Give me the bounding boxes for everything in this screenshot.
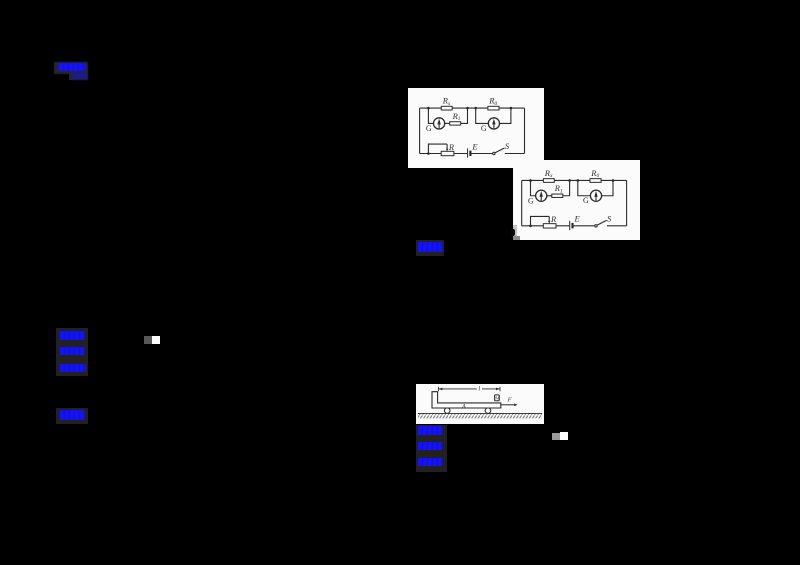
svg-text:Rx: Rx — [442, 96, 451, 107]
cart body (wall + deck + base slab) — [432, 392, 501, 408]
force F arrowhead — [514, 404, 518, 407]
dark backing under navy blob — [69, 72, 73, 81]
wire: bottom rail right segment (fig2) — [607, 225, 627, 227]
junction node: mid-left (fig2) — [568, 179, 571, 182]
navy highlighted text fragment — [72, 72, 88, 81]
wire: G1 to R1 (fig2) — [547, 195, 552, 197]
blue answer row 1 (right) — [418, 426, 443, 435]
blue answer row 3 (left) — [60, 364, 86, 372]
dimension line left half — [439, 388, 477, 390]
wire: top rail (fig2) — [522, 179, 627, 181]
junction node: bottom-left — [427, 152, 430, 155]
galvanometer G1 body (fig2) — [536, 190, 547, 201]
scan artifact: black dot — [511, 229, 516, 236]
svg-text:E: E — [574, 214, 581, 224]
galvanometer G1 needle (fig2) — [540, 196, 542, 200]
middle-right answer panel — [416, 240, 445, 256]
highlight panel top-left (dark backing) — [54, 62, 88, 74]
wire: bottom rail left segment — [420, 153, 468, 155]
wire: R1 up to top rail — [461, 108, 468, 123]
wire: bottom rail right segment (switch to corner) — [505, 153, 525, 155]
left answer panel (dark backing, 3 rows) — [56, 328, 88, 376]
junction node: mid-right (fig2) — [577, 179, 580, 182]
svg-text:F: F — [507, 397, 513, 404]
blue highlighted text line 1 (top-left) — [59, 63, 86, 71]
resistor Rx — [441, 106, 452, 110]
galvanometer G2 needle (fig2) — [595, 196, 597, 200]
left answer row 4 panel — [56, 408, 88, 424]
resistor R0 (fig2) — [590, 179, 601, 183]
resistor Rx (fig2) — [543, 179, 554, 183]
wire: G2 up to top rail — [500, 108, 511, 123]
wire: rheostat slider tap loop (fig2) — [531, 216, 550, 225]
svg-text:S: S — [607, 214, 612, 224]
svg-text:R: R — [550, 214, 557, 224]
dimension line right half — [482, 388, 499, 390]
wire: outer loop left side — [419, 108, 421, 153]
dimension end tick left — [437, 387, 439, 391]
galvanometer G1 needle — [438, 124, 440, 128]
wire: bottom rail left segment (fig2) — [522, 225, 570, 227]
rheostat slider arrow shaft — [446, 144, 448, 149]
resistor R1 (fig2) — [552, 194, 563, 197]
rheostat slider arrowhead (fig2) — [548, 221, 550, 224]
resistor R1 — [450, 122, 461, 125]
galvanometer G2 body (fig2) — [590, 190, 601, 201]
wire: R1 up to top rail (fig2) — [563, 180, 570, 195]
svg-text:G: G — [426, 124, 432, 133]
wire: left G branch (fig2) — [531, 180, 536, 195]
wire: left G branch down and across — [428, 108, 433, 123]
wire: G2 up to top rail (fig2) — [602, 180, 613, 195]
wire: bottom rail mid segment (battery to switch) — [470, 153, 492, 155]
switch S lever (fig2) — [597, 220, 607, 225]
small gray cursor block (right) — [552, 433, 560, 440]
wire: outer loop right side — [524, 108, 526, 153]
small white block (left) — [152, 336, 161, 344]
force F arrow shaft — [501, 404, 515, 406]
svg-text:R0: R0 — [488, 96, 497, 107]
junction node: mid-right pair — [474, 107, 477, 110]
galvanometer G1 body — [434, 118, 445, 129]
svg-text:G: G — [583, 196, 589, 205]
wire: outer loop left side (fig2) — [521, 180, 523, 225]
small white block (right) — [560, 432, 568, 440]
wire: right G branch (fig2) — [578, 180, 591, 195]
rheostat R body — [441, 151, 454, 155]
wire: G1 to R1 — [445, 122, 450, 124]
dimension end tick right — [499, 387, 501, 391]
wire: rheostat slider tap loop — [428, 144, 447, 153]
blue answer row 4 (left) — [60, 410, 86, 420]
svg-text:S: S — [505, 141, 510, 151]
junction node: top-right — [510, 107, 513, 110]
scan artifact: gray block — [513, 236, 520, 240]
wire: outer loop right side (fig2) — [626, 180, 628, 225]
blue answer row 2 (left) — [60, 347, 85, 355]
switch S pivot — [493, 152, 495, 154]
svg-text:R1: R1 — [554, 183, 563, 194]
junction node: top-right (fig2) — [612, 179, 615, 182]
blue answer row 3 (right) — [418, 458, 443, 467]
junction node: bottom-left (fig2) — [529, 225, 532, 228]
svg-text:G: G — [481, 124, 487, 133]
figure box 1: circuit diagram — [408, 88, 544, 168]
rheostat slider arrow shaft (fig2) — [548, 216, 550, 221]
wire: right G branch down and across — [476, 108, 489, 123]
wire: bottom rail mid segment (fig2) — [573, 225, 595, 227]
dimension arrowhead left — [439, 388, 443, 391]
dimension arrowhead right — [496, 388, 500, 391]
svg-text:G: G — [528, 197, 534, 206]
switch S pivot (fig2) — [595, 225, 597, 227]
figure box 2: circuit diagram (answer copy) — [513, 160, 640, 240]
battery E long plate (fig2) — [569, 221, 571, 230]
svg-text:E: E — [471, 141, 478, 151]
battery E long plate — [467, 148, 469, 157]
svg-text:l: l — [478, 386, 480, 393]
blue answer row 1 (left) — [60, 331, 84, 340]
battery E short thick plate (fig2) — [571, 223, 573, 228]
galvanometer G2 needle — [493, 124, 495, 128]
scan artifact: light gray strip at box2 bottom-left — [513, 225, 517, 237]
svg-text:R1: R1 — [452, 111, 461, 122]
blue answer row 2 (right) — [418, 442, 442, 450]
right answer panel (3 rows) — [416, 425, 448, 472]
junction node: top-left (fig2) — [529, 179, 532, 182]
battery E short thick plate — [469, 151, 471, 156]
blue answer row (middle-right) — [418, 242, 444, 252]
svg-text:R0: R0 — [590, 168, 599, 179]
wheel left — [444, 408, 450, 414]
wheel right — [485, 408, 491, 414]
ground surface line — [418, 412, 542, 414]
svg-text:M: M — [495, 396, 499, 401]
rheostat slider arrowhead — [446, 149, 448, 152]
figure box 3: cart diagram — [416, 384, 544, 424]
svg-text:R: R — [448, 142, 455, 152]
rheostat R body (fig2) — [543, 224, 556, 228]
switch S lever — [495, 148, 505, 153]
small gray cursor block (left) — [144, 336, 152, 344]
junction node: top-left — [427, 107, 430, 110]
wire: top rail — [420, 107, 525, 109]
resistor R0 — [488, 106, 499, 110]
svg-text:Rx: Rx — [544, 168, 553, 179]
galvanometer G2 body — [488, 118, 499, 129]
block M body — [495, 395, 500, 401]
ground hatching — [418, 413, 542, 418]
junction node: mid-left pair — [466, 107, 469, 110]
